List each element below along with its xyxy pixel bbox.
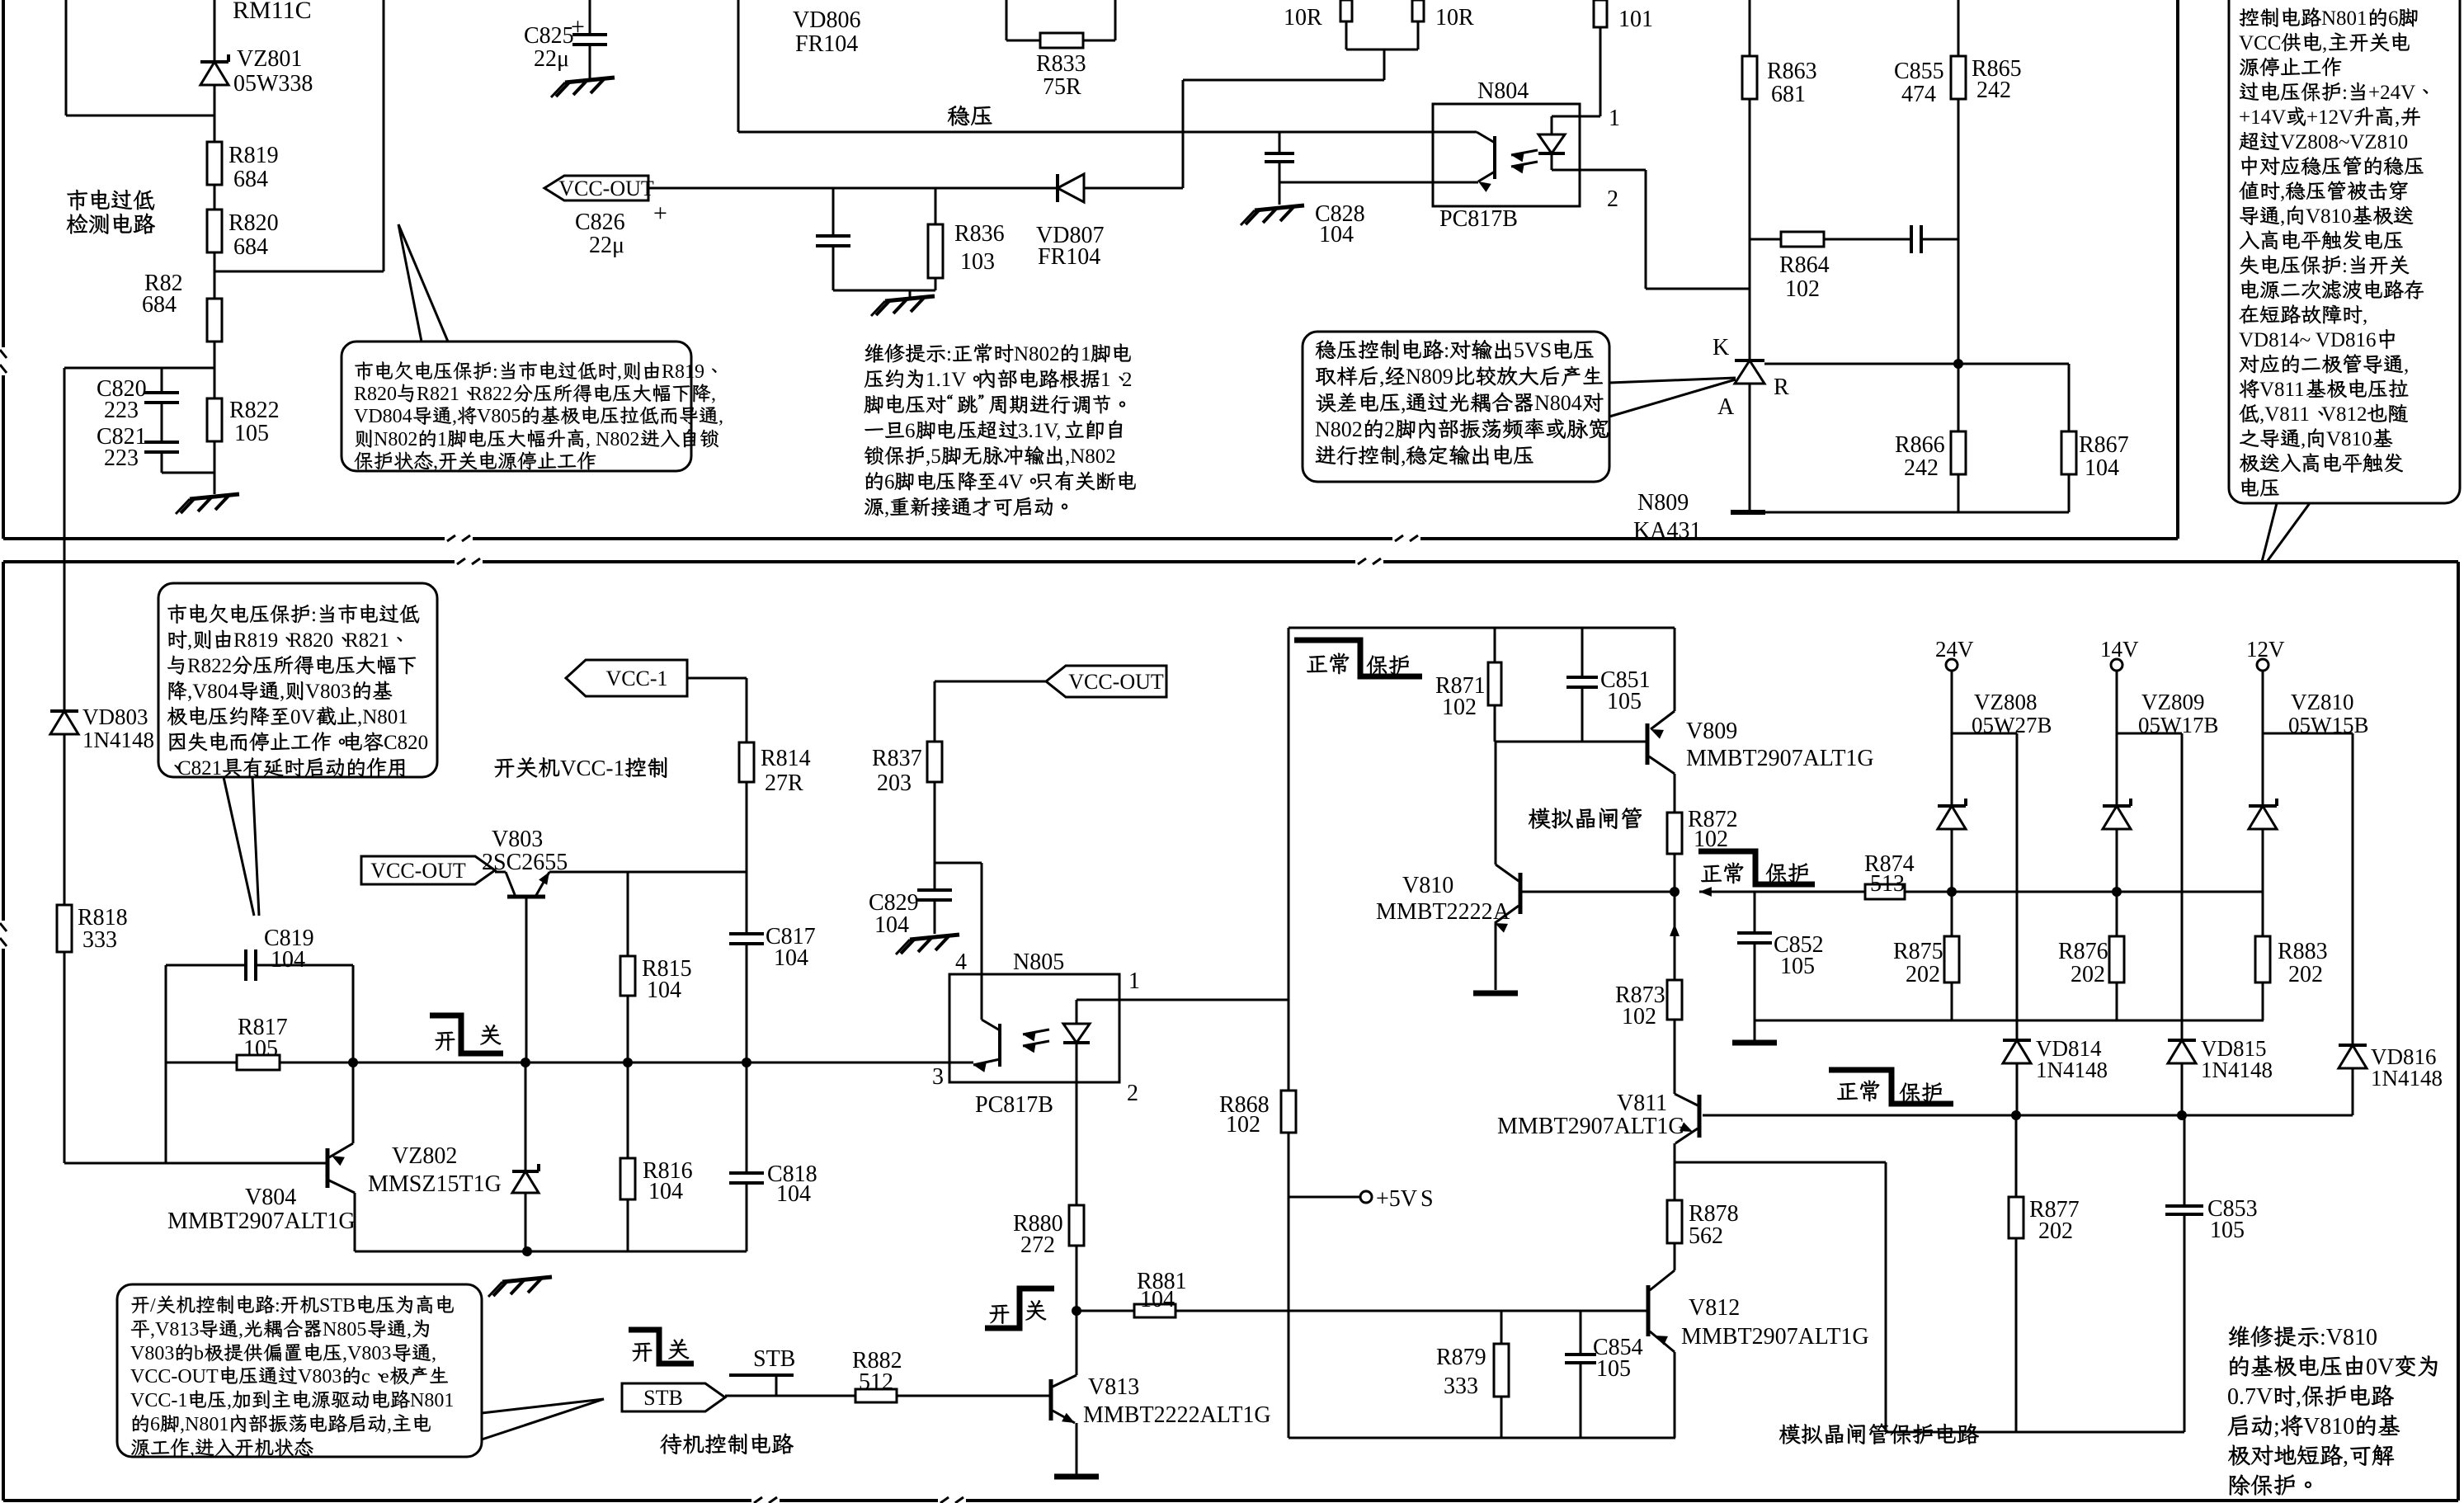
label R882 512 [852, 1348, 902, 1395]
resistor R879 [1494, 1344, 1509, 1397]
svg-text::: : [2342, 255, 2348, 277]
resistor R873 [1667, 980, 1682, 1020]
wire N805 pin1 net [1077, 999, 1289, 1001]
label K A R [1713, 335, 1789, 420]
resistor R815 branch [627, 872, 629, 1062]
label C828 104 [1315, 201, 1365, 247]
label V812 MMBT2907ALT1G [1681, 1295, 1869, 1350]
svg-text:2: 2 [1607, 186, 1618, 212]
transistor V813 [1051, 1375, 1077, 1475]
svg-text:+: + [571, 13, 585, 40]
svg-text:,: , [2301, 428, 2306, 450]
callout 市电欠电压保护 bottom box [158, 583, 437, 916]
svg-text:242: 242 [1904, 455, 1939, 481]
svg-text:105: 105 [243, 1036, 278, 1062]
callout 市电欠电压保护 top text [354, 361, 723, 473]
label R867 104 [2079, 432, 2129, 481]
label 101 [1618, 7, 1653, 32]
svg-text:1: 1 [1081, 343, 1091, 365]
label 模拟晶闸管 [1529, 808, 1642, 829]
svg-text:VZ810: VZ810 [2291, 690, 2354, 714]
svg-text:VD814~ VD816: VD814~ VD816 [2239, 329, 2377, 351]
svg-text:,: , [617, 361, 622, 383]
label V813 MMBT2222ALT1G [1083, 1374, 1271, 1428]
svg-text:102: 102 [1226, 1112, 1260, 1138]
resistor R872 [1667, 813, 1682, 854]
label 10R left [1284, 5, 1322, 31]
svg-text:,: , [280, 681, 285, 703]
resistor R815 [620, 956, 635, 996]
top box bottom border [3, 534, 2178, 544]
flag VCC-OUT [544, 176, 654, 200]
label R865 242 [1972, 56, 2022, 103]
svg-text:2: 2 [1122, 369, 1133, 391]
resistor R866 branch [1958, 364, 1960, 512]
resistor R883 [2255, 936, 2270, 982]
wire R881 row [1072, 1306, 1648, 1316]
svg-text:N805: N805 [323, 1319, 366, 1340]
capacitor C819 [246, 949, 256, 981]
svg-text:,: , [187, 629, 192, 652]
svg-text:,: , [433, 451, 438, 473]
svg-text:MMBT2222ALT1G: MMBT2222ALT1G [1083, 1402, 1271, 1428]
label R817 105 [238, 1015, 288, 1062]
label R815 104 [642, 956, 692, 1003]
svg-text:VCC-OUT: VCC-OUT [370, 859, 466, 883]
svg-text:6: 6 [884, 471, 895, 493]
svg-text:512: 512 [859, 1369, 893, 1395]
svg-text:R822: R822 [229, 398, 280, 423]
svg-text:R879: R879 [1436, 1345, 1486, 1370]
wire VCC-1 drop [687, 678, 747, 872]
callout 过电压保护 text [2239, 7, 2428, 497]
ground V813 [1054, 1474, 1099, 1480]
svg-text:104: 104 [776, 1181, 811, 1207]
resistor R876 [2109, 936, 2124, 982]
svg-text:,: , [2322, 32, 2327, 54]
label R820 684 [228, 210, 279, 260]
label C819 104 [264, 926, 314, 973]
svg-text:V812: V812 [2321, 403, 2367, 426]
resistor R836 [928, 224, 943, 278]
wire R837 column [935, 681, 1046, 934]
zener VZ810 [2249, 799, 2277, 829]
svg-text:S: S [1420, 1186, 1434, 1212]
svg-text:,: , [2404, 354, 2409, 376]
svg-text:V813: V813 [1088, 1374, 1139, 1400]
svg-text:,V804: ,V804 [187, 681, 238, 703]
resistor R874 [1865, 884, 1905, 899]
wire zener bottom rail [1755, 1020, 2264, 1022]
wire V811 base rail [1703, 1110, 2353, 1120]
resistor R866 [1951, 431, 1966, 474]
svg-text:C825: C825 [524, 23, 574, 49]
capacitor C853 branch [2184, 1115, 2186, 1432]
step 正常保护 thyristor [1294, 640, 1422, 676]
svg-text:,V803: ,V803 [342, 1343, 391, 1364]
label N809 KA431 [1633, 490, 1701, 544]
svg-text::V810: :V810 [2320, 1325, 2377, 1350]
label C851 105 [1600, 667, 1651, 714]
svg-text:104: 104 [271, 947, 305, 973]
svg-text:3: 3 [932, 1064, 944, 1090]
label R875 202 [1893, 939, 1943, 987]
svg-text:,: , [2280, 205, 2285, 228]
svg-text:,: , [431, 1343, 436, 1364]
svg-text:R867: R867 [2079, 432, 2129, 458]
svg-text:5VS: 5VS [1514, 338, 1552, 362]
zener VZ809 [2103, 799, 2131, 829]
svg-text:333: 333 [82, 927, 117, 953]
svg-text:1N4148: 1N4148 [2201, 1058, 2273, 1082]
label C818 104 [767, 1161, 817, 1207]
svg-text:V811: V811 [1617, 1091, 1667, 1116]
capacitor C853 [2165, 1206, 2203, 1214]
wire junction to box (y=329) [214, 0, 384, 271]
wire control rail [348, 1058, 949, 1067]
resistor R822 [207, 398, 222, 441]
svg-text:05W17B: 05W17B [2138, 713, 2219, 737]
label VZ808 05W27B [1972, 690, 2052, 737]
svg-text:6: 6 [2388, 7, 2399, 30]
svg-text:R819: R819 [662, 361, 704, 383]
svg-text:+12V: +12V [2306, 106, 2353, 129]
svg-text:R875: R875 [1893, 939, 1943, 964]
resistor R882 [855, 1389, 897, 1402]
svg-text:VCC-OUT: VCC-OUT [1068, 670, 1164, 694]
svg-text:14V: 14V [2100, 637, 2139, 662]
resistor R818 [57, 905, 72, 952]
resistor R863 [1742, 56, 1757, 99]
label VZ802 MMSZ15T1G [368, 1143, 502, 1197]
label C855 474 [1894, 59, 1944, 107]
label V804 MMBT2907ALT1G [167, 1185, 356, 1234]
svg-text:V803: V803 [130, 1343, 174, 1364]
capacitor C821 [144, 442, 179, 452]
transistor V811 [1675, 1089, 1699, 1200]
svg-text:R820: R820 [354, 384, 397, 405]
svg-text:V803: V803 [305, 681, 351, 703]
svg-text:104: 104 [2085, 455, 2119, 481]
label pin 1 N804 [1609, 106, 1620, 131]
svg-text:V803: V803 [298, 1366, 342, 1388]
svg-text:/: / [150, 1295, 156, 1317]
svg-text:103: 103 [960, 249, 995, 275]
label R836 103 [954, 221, 1005, 275]
svg-text:,: , [711, 384, 716, 405]
label VD803 1N4148 [82, 704, 154, 752]
svg-text:1: 1 [1100, 369, 1111, 391]
label R872 102 [1688, 807, 1738, 852]
label R821 684 [142, 271, 183, 318]
svg-text:105: 105 [234, 421, 269, 446]
svg-text:05W27B: 05W27B [1972, 713, 2052, 737]
terminal 12V [2246, 637, 2285, 671]
label 开关机VCC-1控制 [495, 756, 667, 780]
svg-text:N801: N801 [2321, 7, 2367, 30]
svg-text:R820: R820 [289, 629, 333, 652]
diode VD807 [1058, 174, 1084, 202]
svg-text:MMSZ15T1G: MMSZ15T1G [368, 1171, 502, 1197]
label VD815 1N4148 [2201, 1036, 2273, 1082]
label R814 27R [761, 746, 811, 796]
svg-text:75R: 75R [1043, 74, 1081, 100]
svg-text:223: 223 [104, 398, 139, 423]
wire thyristor box top [1289, 627, 1675, 629]
wire VCC-OUT rail [648, 187, 1183, 190]
svg-text:VZ802: VZ802 [392, 1143, 457, 1169]
svg-text:VCC-1: VCC-1 [130, 1390, 187, 1411]
svg-text:102: 102 [1622, 1004, 1656, 1029]
label 模拟晶闸管保护电路 [1779, 1424, 1979, 1444]
svg-text:R876: R876 [2058, 939, 2108, 964]
svg-text:VZ808~VZ810: VZ808~VZ810 [2280, 131, 2408, 153]
callout 开关机控制电路 box [117, 1284, 604, 1457]
svg-text:203: 203 [877, 770, 912, 796]
label VD816 1N4148 [2371, 1044, 2443, 1091]
label V811 MMBT2907ALT1G [1497, 1091, 1685, 1139]
svg-text:+14V: +14V [2239, 106, 2286, 129]
resistor R871 branch [1494, 628, 1496, 742]
svg-text:C820: C820 [384, 732, 428, 754]
label R818 333 [78, 905, 128, 953]
callout 稳压控制电路 text [1315, 338, 1608, 468]
transistor V810 [1495, 742, 1675, 990]
svg-text:104: 104 [1140, 1287, 1175, 1312]
flag STB [622, 1383, 725, 1411]
svg-text:N809: N809 [1406, 365, 1453, 389]
label pin 2 N804 [1607, 186, 1618, 212]
diode VD815 [2168, 1040, 2196, 1063]
wire trigger node [1670, 887, 2264, 897]
wire N805 pin2 net [1076, 1082, 1078, 1375]
svg-text:MMBT2907ALT1G: MMBT2907ALT1G [1686, 746, 1874, 771]
svg-text:V804: V804 [245, 1185, 296, 1210]
ground V810 [1473, 991, 1518, 997]
svg-text:R822: R822 [187, 655, 232, 677]
label VZ809 05W17B [2138, 690, 2219, 737]
svg-text:684: 684 [233, 234, 268, 260]
transistor V803 [495, 872, 549, 1062]
svg-text:6: 6 [150, 1414, 160, 1435]
wire V811 emitter branch [1675, 1162, 1886, 1432]
N805 light arrows [1023, 1029, 1049, 1053]
svg-text:N802: N802 [1315, 417, 1363, 441]
svg-text:104: 104 [647, 978, 681, 1003]
svg-text:223: 223 [104, 445, 139, 471]
capacitor C825 feed [589, 0, 591, 78]
svg-text:STB: STB [643, 1386, 683, 1410]
svg-text:MMBT2907ALT1G: MMBT2907ALT1G [1681, 1324, 1869, 1350]
wire 24V branch [1952, 671, 2017, 1115]
svg-text:VD804: VD804 [354, 406, 412, 427]
svg-text:V810: V810 [1402, 873, 1453, 898]
svg-text::: : [492, 361, 498, 383]
zener VZ802 [512, 1164, 539, 1193]
svg-text:,V811: ,V811 [2259, 403, 2310, 426]
resistor R871 [1488, 662, 1501, 705]
terminal 14V [2100, 637, 2139, 671]
capacitor C820 [144, 393, 179, 403]
transistor V812 [1648, 1243, 1675, 1438]
svg-text:4V: 4V [998, 471, 1024, 493]
svg-text:RM11C: RM11C [233, 0, 312, 24]
capacitor C825 [572, 35, 607, 45]
label C817 104 [766, 924, 816, 971]
diode VD816 [2339, 1045, 2367, 1068]
wire R864 row [1750, 238, 1958, 241]
resistor R868 [1281, 1091, 1296, 1133]
resistor R864 [1781, 232, 1824, 247]
label R816 104 [643, 1158, 693, 1204]
label V803 2SC2655 [482, 827, 568, 875]
svg-text:c: c [361, 1366, 370, 1388]
svg-text:1: 1 [437, 429, 447, 450]
wire C820 branch [64, 368, 214, 562]
label R866 242 [1895, 432, 1945, 481]
svg-text:1.1V: 1.1V [926, 369, 966, 391]
step 开关 v803 [430, 1015, 503, 1053]
svg-text::: : [1444, 338, 1449, 362]
svg-text:MMBT2907ALT1G: MMBT2907ALT1G [167, 1209, 356, 1234]
svg-text:VD803: VD803 [82, 704, 148, 729]
label 10R right [1435, 5, 1474, 31]
note 维修提示 V810 text [2227, 1325, 2437, 1496]
label R822 105 [229, 398, 280, 446]
svg-text:VZ809: VZ809 [2141, 690, 2205, 714]
wire 12V branch [2263, 671, 2353, 1115]
label R833 75R [1036, 51, 1086, 100]
wire 14V branch [2117, 671, 2182, 1115]
svg-text:104: 104 [1319, 222, 1354, 247]
label N805 and pins [932, 949, 1140, 1106]
ground under C828 [1241, 205, 1304, 225]
svg-text:,: , [2296, 1384, 2301, 1410]
svg-text:R: R [1774, 375, 1789, 400]
capacitor C817 branch [746, 872, 748, 1062]
svg-text:FR104: FR104 [795, 31, 858, 57]
svg-text:PC817B: PC817B [975, 1092, 1053, 1118]
svg-text:,: , [190, 1438, 195, 1459]
svg-text:V812: V812 [1689, 1295, 1740, 1321]
svg-text:0V: 0V [290, 706, 316, 728]
svg-text:562: 562 [1689, 1223, 1723, 1249]
label R873 102 [1615, 982, 1665, 1029]
svg-text:12V: 12V [2246, 637, 2285, 662]
svg-text:MMBT2222: MMBT2222 [1376, 899, 1493, 925]
label R877 202 [2029, 1197, 2080, 1244]
N805 LED [1063, 1000, 1090, 1082]
capacitor C826 branch [833, 188, 935, 290]
N805 phototransistor [949, 974, 1000, 1072]
wire VD803 column [64, 562, 66, 1163]
label VZ801 05W338 [233, 46, 313, 97]
svg-text:R836: R836 [954, 221, 1005, 247]
svg-text:VCC-OUT: VCC-OUT [558, 177, 654, 200]
svg-text:,V813: ,V813 [150, 1319, 199, 1340]
svg-text:,: , [2343, 1444, 2349, 1469]
resistor R881 [1134, 1304, 1175, 1317]
label R883 202 [2278, 939, 2328, 987]
svg-text:102: 102 [1785, 276, 1820, 302]
label 待机控制电路 [660, 1434, 793, 1454]
resistor R819 [207, 142, 222, 185]
step 开关 stb [629, 1330, 694, 1364]
optocoupler N804 box [1433, 104, 1580, 206]
resistor R867 branch [2068, 364, 2071, 512]
label R864 102 [1779, 252, 1830, 302]
svg-text:,: , [718, 406, 723, 427]
resistor R820 [207, 210, 222, 252]
svg-text:,N801: ,N801 [180, 1414, 228, 1435]
ground lower rail [488, 1277, 552, 1297]
resistor R880 [1069, 1205, 1084, 1246]
svg-text:N802: N802 [374, 429, 417, 450]
svg-text:K: K [1713, 335, 1729, 360]
svg-text:A: A [1717, 394, 1735, 420]
label R879 333 [1436, 1345, 1486, 1399]
label VD814 1N4148 [2036, 1036, 2108, 1082]
svg-text:,: , [238, 1319, 243, 1340]
svg-text:,: , [2395, 106, 2400, 129]
svg-text:V809: V809 [1686, 719, 1737, 744]
resistor 10R left [1340, 0, 1352, 21]
svg-text:,: , [1401, 444, 1406, 468]
resistor R878 [1667, 1200, 1682, 1243]
resistor R875 [1944, 936, 1959, 982]
resistor R879 branch [1501, 1311, 1503, 1438]
svg-text:VCC-1: VCC-1 [605, 667, 667, 690]
svg-text:,: , [387, 1414, 392, 1435]
wire C819 box [166, 965, 353, 1163]
wire R877 bottom rail [1886, 1431, 2184, 1434]
svg-text:,: , [407, 1319, 412, 1340]
svg-text:V805: V805 [477, 406, 521, 427]
svg-text:0.7V: 0.7V [2227, 1384, 2273, 1410]
wire V804 base row [64, 1162, 327, 1165]
label R881 104 [1137, 1269, 1187, 1312]
svg-text:104: 104 [648, 1179, 683, 1204]
svg-text:102: 102 [1694, 827, 1728, 852]
resistor R873 branch [1670, 892, 1680, 1089]
resistor R877 branch [2015, 1115, 2018, 1432]
resistor R814 [739, 742, 754, 782]
ground under R836 [871, 290, 935, 316]
svg-text:242: 242 [1976, 78, 2011, 103]
svg-text:V810: V810 [2306, 205, 2352, 228]
svg-text:VCC-1: VCC-1 [560, 756, 624, 780]
svg-text:202: 202 [2288, 962, 2323, 987]
label 稳压 [948, 106, 992, 126]
svg-text:V810: V810 [2303, 1414, 2354, 1439]
svg-text:MMBT2907ALT1G: MMBT2907ALT1G [1497, 1114, 1685, 1139]
capacitor C855 [1911, 225, 1921, 253]
svg-text:513: 513 [1870, 871, 1905, 897]
zener VZ801 [200, 54, 228, 85]
callout 过电压保护 box [2229, 0, 2460, 562]
label C825 22u + [524, 13, 585, 72]
label V809 MMBT2907ALT1G [1686, 719, 1874, 771]
wire R865 column [1958, 0, 1960, 364]
ground under C825 [551, 78, 615, 97]
svg-text:05W338: 05W338 [233, 71, 313, 97]
svg-text:R822: R822 [469, 384, 512, 405]
svg-text:,: , [884, 497, 889, 519]
svg-text:PC817B: PC817B [1439, 206, 1518, 232]
component label RM11C [233, 0, 312, 24]
svg-text:V810: V810 [2326, 428, 2372, 450]
svg-text:R866: R866 [1895, 432, 1945, 458]
